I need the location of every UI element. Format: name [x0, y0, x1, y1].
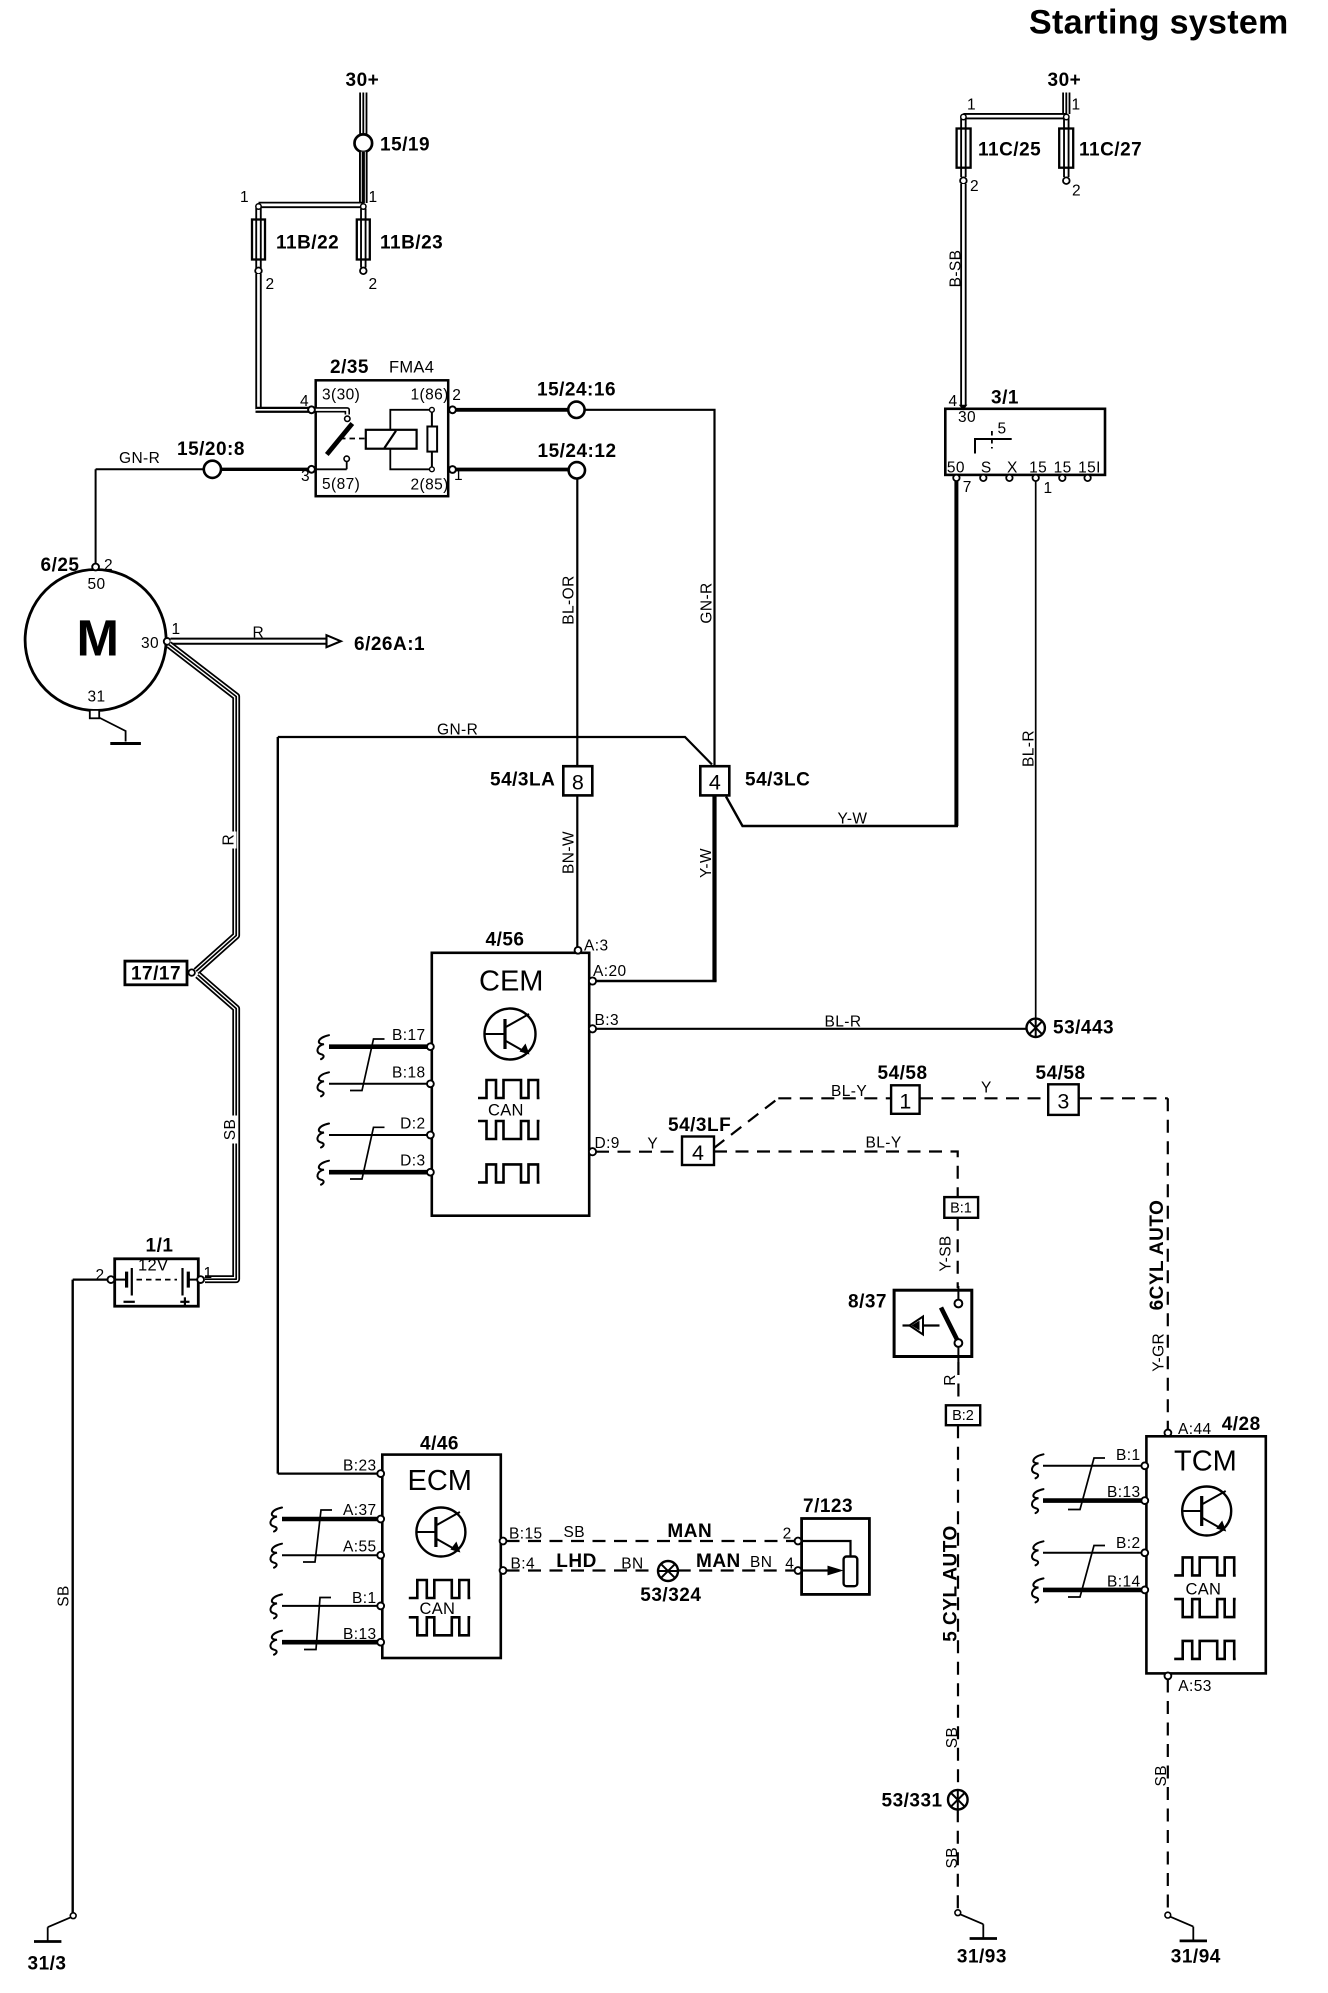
svg-text:2/35: 2/35: [330, 357, 369, 378]
svg-text:1: 1: [967, 97, 976, 114]
svg-text:4: 4: [709, 771, 721, 795]
svg-text:M: M: [76, 610, 118, 667]
svg-text:R: R: [253, 625, 265, 642]
svg-text:5 CYL AUTO: 5 CYL AUTO: [940, 1525, 961, 1642]
svg-text:Y-SB: Y-SB: [937, 1235, 954, 1271]
svg-text:30+: 30+: [1048, 70, 1082, 91]
svg-text:CAN: CAN: [488, 1102, 524, 1120]
svg-text:31/94: 31/94: [1171, 1947, 1221, 1968]
svg-text:4/56: 4/56: [486, 930, 525, 951]
svg-text:4: 4: [949, 393, 958, 410]
svg-text:R: R: [221, 834, 238, 846]
svg-text:15I: 15I: [1078, 460, 1101, 477]
svg-text:GN-R: GN-R: [119, 450, 160, 467]
svg-text:1(86): 1(86): [411, 387, 449, 404]
svg-text:Y: Y: [981, 1080, 992, 1097]
svg-text:11C/25: 11C/25: [978, 140, 1041, 161]
svg-text:B:23: B:23: [343, 1458, 377, 1475]
svg-text:31: 31: [88, 689, 106, 706]
svg-text:B:14: B:14: [1107, 1573, 1141, 1590]
svg-text:3/1: 3/1: [991, 388, 1019, 409]
svg-text:BL-R: BL-R: [825, 1014, 862, 1031]
svg-text:B:13: B:13: [1107, 1484, 1141, 1501]
svg-text:12V: 12V: [138, 1257, 168, 1275]
svg-text:FMA4: FMA4: [389, 359, 434, 377]
svg-text:2: 2: [452, 387, 461, 404]
svg-text:A:55: A:55: [343, 1538, 377, 1555]
svg-text:B-SB: B-SB: [948, 250, 965, 288]
svg-text:30: 30: [958, 409, 976, 426]
svg-text:7/123: 7/123: [803, 1496, 853, 1517]
svg-text:15/24:16: 15/24:16: [537, 380, 616, 401]
svg-text:6/25: 6/25: [41, 555, 80, 576]
svg-text:4: 4: [785, 1556, 794, 1573]
svg-text:B:18: B:18: [392, 1064, 426, 1081]
svg-text:1: 1: [369, 189, 378, 206]
svg-text:B:1: B:1: [950, 1201, 972, 1217]
svg-text:4: 4: [300, 393, 309, 410]
svg-text:Y: Y: [647, 1136, 658, 1153]
svg-text:B:2: B:2: [952, 1408, 974, 1424]
svg-text:30: 30: [141, 635, 159, 652]
svg-text:MAN: MAN: [667, 1521, 712, 1542]
svg-text:1: 1: [1044, 480, 1053, 497]
svg-text:11B/22: 11B/22: [276, 233, 339, 254]
svg-text:GN-R: GN-R: [699, 582, 716, 623]
svg-text:B:2: B:2: [1116, 1535, 1140, 1552]
svg-text:8: 8: [572, 771, 584, 795]
svg-text:Starting system: Starting system: [1029, 4, 1289, 42]
svg-text:Y-W: Y-W: [838, 811, 868, 828]
svg-text:D:9: D:9: [595, 1135, 620, 1152]
svg-text:BN: BN: [750, 1554, 772, 1571]
svg-text:5(87): 5(87): [322, 476, 360, 493]
svg-text:4/28: 4/28: [1222, 1414, 1261, 1435]
svg-text:31/93: 31/93: [957, 1947, 1007, 1968]
svg-text:3(30): 3(30): [322, 387, 360, 404]
svg-text:SB: SB: [222, 1119, 239, 1140]
svg-text:A:53: A:53: [1178, 1678, 1212, 1695]
svg-text:D:2: D:2: [400, 1115, 425, 1132]
svg-text:B:1: B:1: [352, 1590, 376, 1607]
svg-text:MAN: MAN: [696, 1551, 741, 1572]
svg-text:A:20: A:20: [593, 963, 627, 980]
svg-text:15/19: 15/19: [380, 135, 430, 156]
svg-text:2: 2: [369, 276, 378, 293]
svg-text:LHD: LHD: [556, 1551, 597, 1572]
svg-text:2: 2: [266, 276, 275, 293]
svg-text:B:3: B:3: [595, 1012, 619, 1029]
svg-text:1: 1: [1072, 97, 1081, 114]
svg-text:31/3: 31/3: [28, 1954, 67, 1975]
svg-text:TCM: TCM: [1174, 1445, 1237, 1477]
svg-text:1: 1: [204, 1265, 213, 1282]
svg-text:GN-R: GN-R: [437, 722, 478, 739]
svg-text:1: 1: [899, 1090, 911, 1114]
svg-text:D:3: D:3: [400, 1152, 425, 1169]
svg-text:17/17: 17/17: [131, 964, 181, 985]
svg-text:R: R: [942, 1374, 959, 1386]
svg-text:A:37: A:37: [343, 1502, 377, 1519]
svg-text:BL-OR: BL-OR: [560, 575, 577, 624]
svg-text:54/58: 54/58: [1036, 1063, 1086, 1084]
svg-text:53/443: 53/443: [1053, 1018, 1114, 1039]
svg-text:A:3: A:3: [584, 938, 608, 955]
svg-text:BL-R: BL-R: [1021, 730, 1038, 767]
svg-text:B:13: B:13: [343, 1626, 377, 1643]
svg-text:54/3LF: 54/3LF: [668, 1115, 731, 1136]
svg-text:54/3LC: 54/3LC: [745, 770, 810, 791]
svg-text:SB: SB: [1153, 1765, 1170, 1786]
svg-text:6/26A:1: 6/26A:1: [354, 634, 425, 655]
svg-text:11C/27: 11C/27: [1079, 140, 1142, 161]
svg-text:2: 2: [96, 1267, 105, 1284]
svg-text:2: 2: [104, 557, 113, 574]
svg-text:15/24:12: 15/24:12: [538, 441, 617, 462]
svg-text:BL-Y: BL-Y: [866, 1135, 902, 1152]
svg-text:2: 2: [783, 1526, 792, 1543]
svg-text:B:1: B:1: [1116, 1447, 1140, 1464]
svg-text:5: 5: [998, 421, 1007, 438]
svg-text:1: 1: [172, 621, 181, 638]
svg-text:CAN: CAN: [420, 1600, 456, 1618]
svg-text:11B/23: 11B/23: [380, 233, 443, 254]
svg-text:54/58: 54/58: [878, 1063, 928, 1084]
svg-text:CAN: CAN: [1186, 1580, 1222, 1598]
svg-text:Y-W: Y-W: [698, 848, 715, 878]
svg-text:Y-GR: Y-GR: [1150, 1333, 1167, 1372]
svg-text:BN: BN: [621, 1556, 643, 1573]
svg-text:1: 1: [240, 189, 249, 206]
svg-text:BL-Y: BL-Y: [831, 1083, 867, 1100]
svg-text:SB: SB: [944, 1727, 961, 1748]
svg-text:15: 15: [1029, 460, 1047, 477]
svg-text:6CYL AUTO: 6CYL AUTO: [1147, 1200, 1168, 1311]
svg-text:53/331: 53/331: [882, 1791, 943, 1812]
svg-text:4: 4: [692, 1141, 704, 1165]
svg-text:50: 50: [88, 576, 106, 593]
svg-text:1/1: 1/1: [146, 1236, 174, 1257]
svg-text:ECM: ECM: [408, 1465, 472, 1497]
svg-text:2: 2: [1072, 183, 1081, 200]
svg-text:8/37: 8/37: [848, 1292, 887, 1313]
svg-text:B:17: B:17: [392, 1027, 426, 1044]
svg-text:2(85): 2(85): [411, 477, 449, 494]
svg-text:2: 2: [970, 178, 979, 195]
svg-text:BN-W: BN-W: [561, 831, 578, 874]
svg-text:54/3LA: 54/3LA: [490, 770, 555, 791]
svg-text:7: 7: [963, 479, 972, 496]
svg-text:SB: SB: [56, 1585, 73, 1606]
svg-text:53/324: 53/324: [640, 1585, 701, 1606]
svg-text:30+: 30+: [346, 70, 380, 91]
svg-text:CEM: CEM: [479, 965, 543, 997]
svg-text:SB: SB: [564, 1524, 585, 1541]
svg-text:4/46: 4/46: [420, 1434, 459, 1455]
svg-text:3: 3: [1057, 1090, 1069, 1114]
svg-text:15/20:8: 15/20:8: [177, 439, 245, 460]
